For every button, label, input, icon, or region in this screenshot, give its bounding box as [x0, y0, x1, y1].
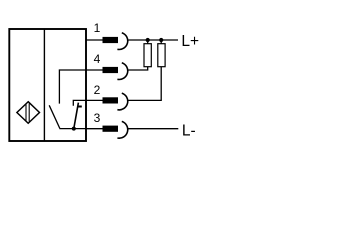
wire: pin 3 to L- [128, 128, 178, 130]
svg-text:3: 3 [94, 111, 101, 125]
connector pin 3 socket arc [117, 121, 127, 138]
sensor body outline [9, 29, 86, 141]
wire: load resistor 2 top lead [160, 40, 162, 44]
wire: pin 1 to L+ [128, 39, 178, 41]
switch NC contact seat tick [78, 106, 82, 108]
wire: pin 3 stub [86, 128, 104, 130]
junction: switch common node [72, 127, 76, 131]
wire: pin 2 to load resistor 2 [128, 67, 161, 101]
wire: pin 4 to load resistor 1 [128, 67, 148, 70]
junction: node on L+ rail at resistor 2 [159, 38, 163, 42]
inductive sensor symbol right bar [28, 103, 30, 121]
inductive sensor symbol left bar [25, 104, 27, 121]
wire: load resistor 1 top lead [147, 40, 149, 44]
sensor body divider [43, 29, 45, 141]
wire: pin 2 stub [86, 99, 104, 101]
wire: pin 1 stub [86, 39, 104, 41]
connector pin 4 plug [103, 67, 119, 73]
wire: pin 4 stub [86, 69, 104, 71]
switch NC lever (pin 2 contact, shown closed) [74, 103, 79, 129]
wire: pin 4 to switch contact (inside body) [59, 70, 86, 104]
svg-text:1: 1 [94, 21, 101, 35]
connector pin 2 plug [103, 97, 119, 103]
connector pin 2 socket arc [117, 93, 127, 110]
inductive sensor symbol (diamond) [17, 102, 40, 124]
svg-text:L+: L+ [181, 33, 199, 50]
connector pin 1 socket arc [117, 33, 127, 50]
junction: node on L+ rail at resistor 1 [146, 38, 150, 42]
connector pin 1 plug [103, 37, 119, 43]
load resistor 2 [158, 44, 165, 67]
svg-text:2: 2 [94, 83, 101, 97]
switch NO lever (pin 4 contact, shown open) [49, 105, 60, 128]
connector pin 4 socket arc [117, 63, 127, 80]
svg-text:L-: L- [182, 123, 196, 140]
wire: switch common to pin 3 (inside body) [59, 128, 86, 130]
svg-text:4: 4 [94, 52, 101, 66]
wire: pin 2 to NC contact seat (inside body) [73, 100, 86, 105]
load resistor 1 [144, 44, 151, 67]
connector pin 3 plug [103, 126, 119, 132]
